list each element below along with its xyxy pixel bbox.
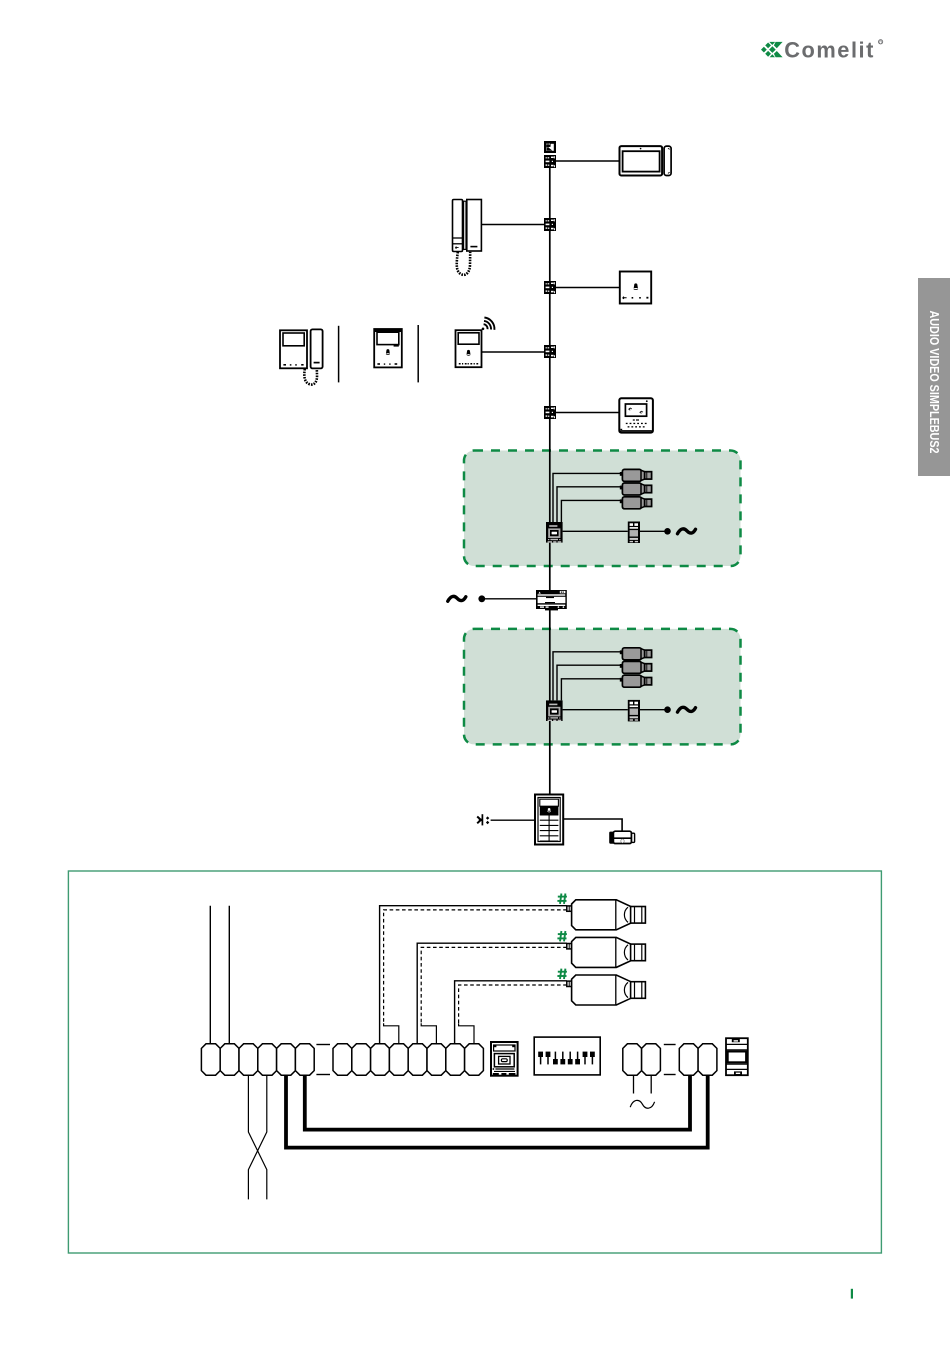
riser bus wire [549, 160, 551, 795]
dashed video wire 2 [421, 947, 567, 1044]
derivation connector 1 [544, 155, 556, 168]
svg-text:R: R [879, 40, 882, 45]
flat monitor [374, 329, 402, 367]
detail camera 1 [567, 900, 646, 930]
dashed video wire 3 [459, 985, 567, 1044]
terminal pair B [679, 1044, 717, 1075]
AC sine small [630, 1100, 654, 1108]
terminal strip right (8) [333, 1044, 483, 1075]
interface module [491, 1042, 518, 1076]
wire to audio module [556, 287, 621, 289]
camera zone 1 (green dashed) [464, 451, 741, 567]
mains node dot [478, 595, 485, 602]
wire switcher to camera psu [563, 709, 628, 711]
wire to audio handset [481, 224, 544, 226]
derivation connector 2 [544, 218, 556, 231]
dip switch block [534, 1037, 600, 1075]
AC mains symbol [678, 529, 696, 534]
svg-text:Comelit: Comelit [784, 37, 875, 62]
camera 1 [620, 648, 652, 660]
wire switcher to camera 2 [557, 487, 620, 522]
option divider 2 [417, 325, 419, 382]
wire switcher to camera psu [563, 530, 628, 532]
camera 2 [620, 661, 652, 673]
Comelit logo [761, 37, 883, 62]
svg-text:AUDIO VIDEO SIMPLEBUS2: AUDIO VIDEO SIMPLEBUS2 [927, 311, 941, 454]
wire lock symbol to panel [491, 819, 535, 821]
wire to video monitor [556, 160, 620, 162]
terminal strip left (6) [201, 1044, 314, 1075]
wire to wifi monitor [481, 351, 544, 353]
camera label # 1 [557, 894, 567, 904]
derivation connector 4 [544, 345, 556, 358]
wire switcher to camera 3 [561, 500, 620, 522]
solid video wire 1 [380, 906, 567, 1044]
camera 3 [620, 497, 652, 509]
camera power supply [628, 700, 640, 722]
wire switcher to camera 2 [557, 665, 620, 700]
AC mains symbol [678, 707, 696, 712]
wifi waves [482, 318, 495, 331]
AC mains symbol [448, 596, 466, 601]
camera switcher module [546, 522, 563, 543]
detail camera 3 [567, 975, 646, 1005]
break dashes right [664, 1045, 676, 1075]
wiring detail box [68, 871, 881, 1253]
camera label # 2 [557, 931, 567, 941]
option divider 1 [338, 326, 340, 383]
detail camera 2 [567, 937, 646, 967]
entrance panel [535, 795, 563, 845]
wire switcher to camera 1 [553, 473, 620, 522]
wire panel to electric lock [563, 819, 622, 831]
main power supply 1595 [536, 590, 567, 610]
camera 2 [620, 483, 652, 495]
electric lock [609, 831, 634, 843]
derivation connector 5 [544, 406, 556, 419]
page mark [851, 1289, 853, 1299]
derivation connector 3 [544, 281, 556, 294]
mains node dot [664, 706, 671, 713]
camera 3 [620, 675, 652, 687]
solid video wire 2 [417, 943, 567, 1044]
lock release symbol [477, 814, 489, 825]
wire switcher to camera 3 [561, 679, 620, 701]
audio handset door phone [453, 200, 482, 275]
audio module [620, 272, 651, 304]
video monitor [620, 146, 672, 175]
wire mains to psu [484, 598, 536, 600]
wire psu to mains dot [640, 530, 665, 532]
break dashes left [316, 1045, 330, 1075]
wires below pair A [634, 1075, 652, 1093]
wire switcher to camera 1 [553, 652, 620, 701]
camera 1 [620, 469, 652, 481]
terminal pair A [623, 1044, 661, 1075]
camera switcher module [546, 700, 563, 721]
wire to keypad monitor [556, 412, 620, 414]
camera label # 3 [557, 969, 567, 979]
keypad monitor [619, 398, 653, 432]
dashed video wire 1 [384, 910, 567, 1044]
twisted pair riser [248, 1075, 266, 1199]
riser wire L2 [228, 906, 230, 1044]
sidebar tab AUDIO VIDEO SIMPLEBUS2 [918, 278, 950, 476]
mains node dot [664, 528, 671, 535]
wifi monitor [456, 330, 482, 367]
din module [726, 1038, 748, 1075]
thick wire outer [286, 1075, 708, 1148]
thick wire inner [305, 1075, 690, 1130]
riser wire L [209, 906, 211, 1044]
line terminator [544, 141, 556, 153]
monitor with handset [280, 329, 323, 384]
camera zone 2 (green dashed) [464, 629, 741, 745]
camera power supply [628, 522, 640, 544]
wire psu to mains dot [640, 709, 665, 711]
solid video wire 3 [455, 981, 567, 1044]
